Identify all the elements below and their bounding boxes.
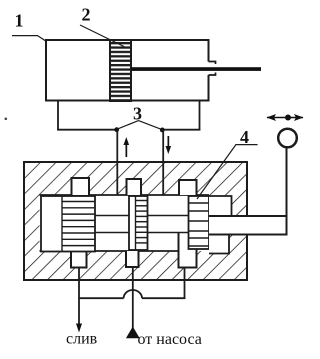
pump symbol (filled triangle)	[126, 327, 140, 339]
flow arrow down	[166, 136, 172, 154]
wire: left pipe segment through body	[116, 162, 118, 195]
port recess bottom-right	[179, 233, 197, 268]
flow arrow up	[124, 137, 130, 157]
wire: right pipe cylinder to valve	[162, 130, 164, 195]
port recess top-left	[72, 178, 90, 195]
port recess top-center	[127, 179, 142, 195]
spool land left	[41, 196, 95, 252]
manifold right wall	[199, 101, 201, 131]
lever knob	[278, 129, 297, 148]
spool stem right	[147, 216, 190, 233]
drain arrowhead	[76, 324, 82, 333]
wire: left pipe cylinder to valve	[116, 130, 118, 195]
leader for label 3 right	[139, 121, 163, 130]
port recess top-right	[179, 180, 197, 195]
wire: pump pipe	[132, 281, 134, 329]
port recess bottom-center	[126, 251, 139, 267]
spool land right	[189, 196, 210, 249]
bore bottom edge	[40, 250, 179, 252]
rod gland lower lip	[209, 73, 216, 76]
end chamber below rod	[209, 235, 229, 254]
wire: return port segment through body	[184, 268, 186, 282]
svg-text:от насоса: от насоса	[138, 331, 202, 348]
wire: crossover hump	[124, 290, 142, 298]
svg-text:2: 2	[82, 5, 91, 25]
end chamber above rod	[209, 196, 232, 216]
rod gland upper lip	[209, 62, 216, 65]
leader for label 2	[80, 25, 124, 47]
piston 2	[110, 40, 131, 101]
wire: drain port segment through body	[78, 268, 80, 282]
wire: right pipe segment through body	[162, 162, 164, 195]
leader for label 3 left	[117, 121, 139, 130]
svg-text:слив: слив	[66, 331, 98, 348]
node A (left pipe junction)	[114, 127, 119, 132]
spool stem left	[94, 216, 130, 233]
node B (right pipe junction)	[160, 127, 165, 132]
bore top edge	[40, 194, 210, 196]
svg-text:1: 1	[15, 11, 24, 31]
wire: connector right segment	[142, 297, 185, 299]
spool land center	[129, 196, 148, 250]
svg-text:4: 4	[240, 127, 249, 147]
manifold left wall	[57, 101, 59, 131]
bore (spool channel)	[40, 195, 210, 251]
leader for label 1	[12, 36, 47, 42]
wire: pump port segment through body	[132, 267, 134, 281]
leader for label 4	[197, 145, 258, 199]
valve body 4 outline + hatch	[23, 161, 248, 281]
manifold bottom right segment	[162, 129, 200, 131]
lever arm	[286, 148, 288, 217]
spool rod to lever	[209, 216, 287, 235]
stray dot	[5, 118, 8, 121]
cylinder body 1	[45, 39, 210, 102]
wire: drain pipe down	[78, 281, 80, 325]
manifold bottom left segment	[57, 129, 117, 131]
wire: right return pipe	[184, 281, 186, 299]
port recess bottom-left	[71, 251, 87, 268]
piston rod	[131, 67, 261, 71]
double-headed motion arrow	[267, 114, 304, 121]
wire: connector left segment	[79, 297, 124, 299]
